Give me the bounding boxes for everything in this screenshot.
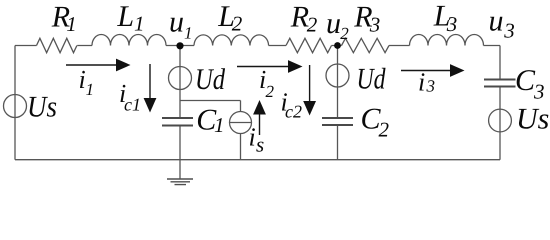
svg-text:c1: c1 bbox=[124, 94, 141, 114]
svg-text:Ud: Ud bbox=[357, 63, 387, 96]
svg-text:u: u bbox=[326, 7, 341, 40]
svg-text:1: 1 bbox=[184, 24, 193, 43]
svg-text:i: i bbox=[249, 123, 256, 152]
svg-text:Us: Us bbox=[27, 91, 57, 124]
svg-text:3: 3 bbox=[426, 77, 436, 96]
svg-text:1: 1 bbox=[86, 80, 95, 99]
svg-text:3: 3 bbox=[369, 13, 381, 37]
svg-text:Ud: Ud bbox=[195, 63, 226, 96]
svg-text:1: 1 bbox=[214, 113, 225, 137]
svg-text:3: 3 bbox=[446, 12, 458, 36]
svg-text:c2: c2 bbox=[285, 102, 302, 122]
svg-text:3: 3 bbox=[503, 19, 515, 43]
svg-text:C: C bbox=[515, 64, 536, 97]
svg-text:u: u bbox=[489, 5, 504, 38]
svg-text:s: s bbox=[256, 133, 264, 157]
svg-text:2: 2 bbox=[232, 12, 243, 36]
svg-text:2: 2 bbox=[340, 24, 349, 43]
svg-text:u: u bbox=[169, 6, 184, 39]
svg-text:L: L bbox=[116, 0, 134, 33]
svg-text:1: 1 bbox=[134, 11, 145, 35]
svg-text:1: 1 bbox=[66, 12, 77, 36]
svg-text:3: 3 bbox=[533, 80, 545, 104]
svg-text:2: 2 bbox=[307, 13, 318, 37]
svg-text:i: i bbox=[418, 68, 425, 97]
svg-text:2: 2 bbox=[379, 118, 390, 142]
svg-text:Us: Us bbox=[516, 103, 549, 136]
svg-text:2: 2 bbox=[266, 82, 275, 101]
